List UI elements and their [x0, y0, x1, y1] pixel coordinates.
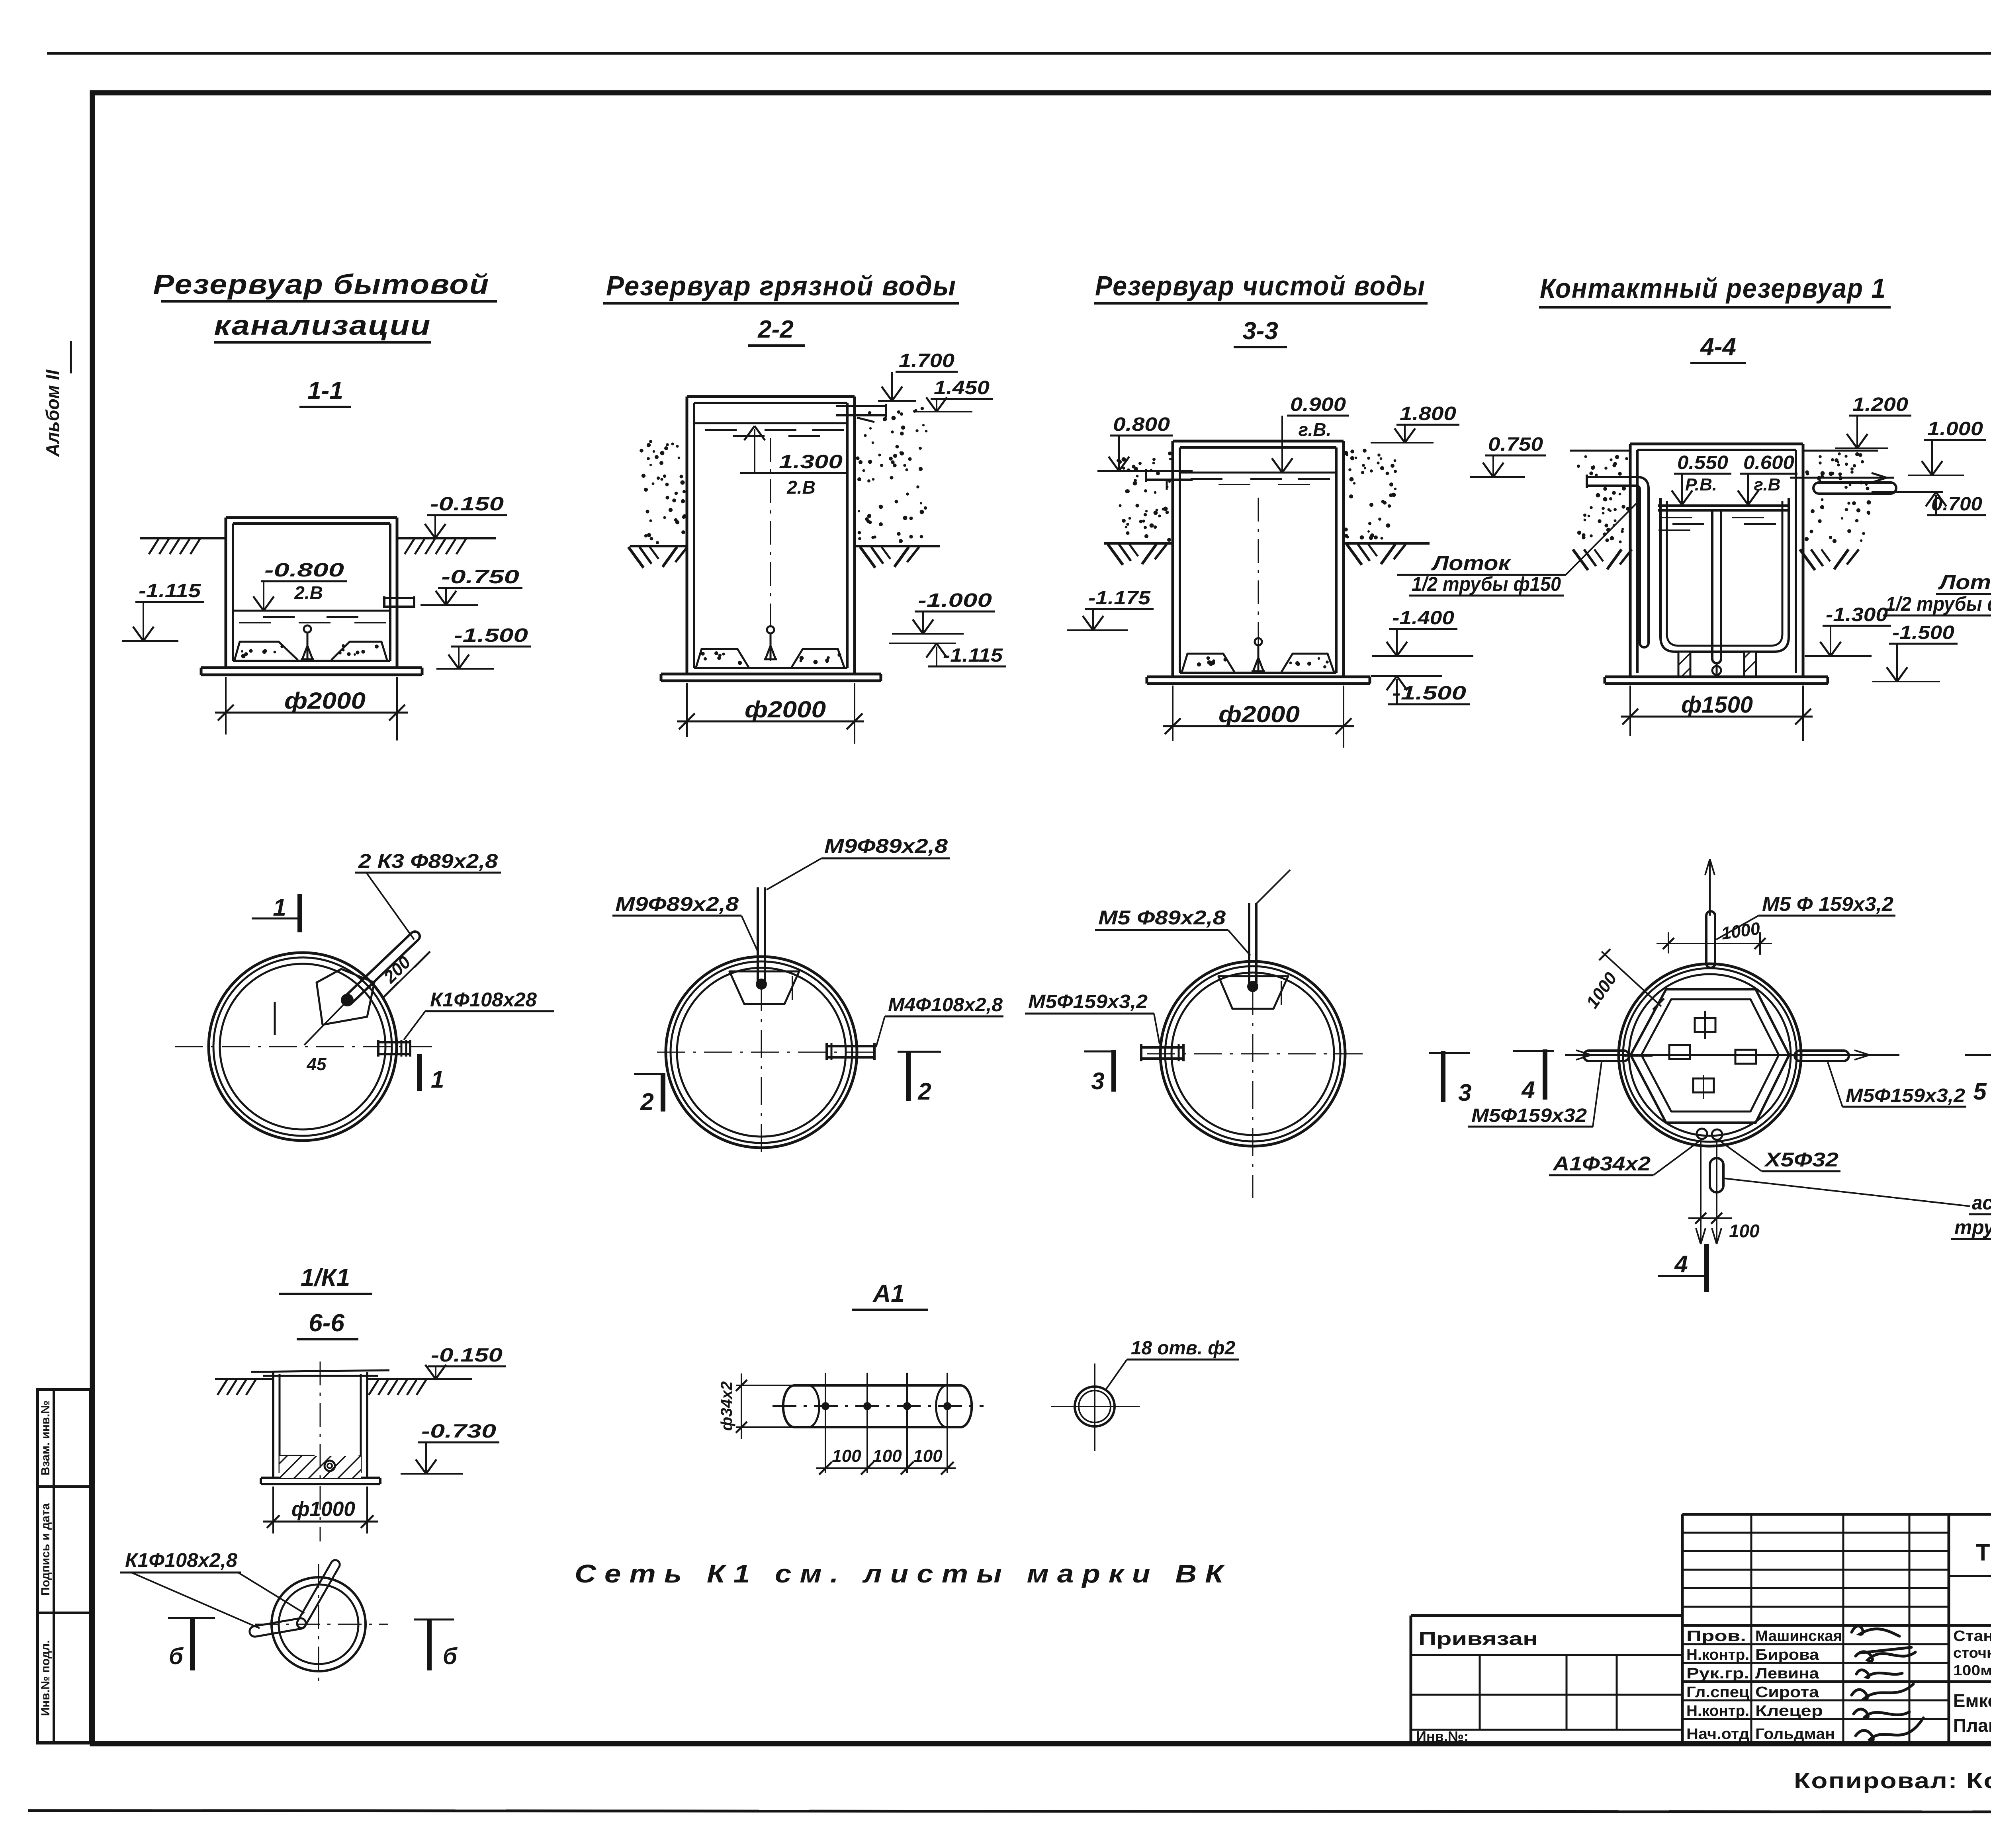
- svg-text:Привязан: Привязан: [1418, 1628, 1538, 1649]
- plan view tank 3 circle: [1160, 961, 1345, 1146]
- dimension ф34х2 (А1): [736, 1385, 792, 1386]
- tank 1-1 base slab: [201, 666, 422, 669]
- centerline tank 2-2: [770, 438, 771, 661]
- svg-text:ТП 902-3-83.88: ТП 902-3-83.88: [1976, 1539, 1991, 1566]
- svg-text:б: б: [169, 1643, 184, 1669]
- dimension ф1500 tank 4-4: [1629, 686, 1631, 736]
- svg-text:сточных вод производительность: сточных вод производительностью: [1953, 1645, 1991, 1661]
- water line tank 1-1: [233, 610, 390, 612]
- anchor symbol in tank 1-1: [304, 625, 311, 633]
- section marker 1 (top): [252, 918, 302, 920]
- inlet pipe left wall 3-3: [1146, 470, 1193, 472]
- svg-text:1/К1: 1/К1: [301, 1264, 350, 1291]
- dimension ф2000 tank 3-3: [1172, 686, 1173, 741]
- svg-text:г.В.: г.В.: [1299, 419, 1332, 440]
- svg-text:4: 4: [1674, 1251, 1688, 1278]
- excavation bottom left 3-3: [1104, 542, 1173, 545]
- overflow pipe top right 2-2: [836, 405, 886, 407]
- dimension ф2000 tank 2-2: [686, 683, 688, 737]
- plan 2 outlet pipe stub right: [827, 1045, 874, 1047]
- soil backfill left of tank 2-2 (stipple): [645, 510, 649, 513]
- section marker 4 (left of plan 4): [1513, 1050, 1554, 1052]
- svg-text:0.600: 0.600: [1743, 452, 1794, 473]
- svg-text:0.800: 0.800: [1113, 414, 1170, 435]
- svg-text:0.750: 0.750: [1488, 434, 1543, 455]
- section marker 2 (left): [634, 1073, 665, 1075]
- plan 4 hexagon frame: [1631, 989, 1789, 1123]
- svg-text:0.550: 0.550: [1677, 452, 1728, 473]
- title block signature rows: [1682, 1643, 1949, 1645]
- ground line right 6-6: [367, 1378, 460, 1380]
- svg-text:45: 45: [307, 1055, 327, 1074]
- shaft 6-6 walls: [272, 1372, 274, 1478]
- svg-text:1.000: 1.000: [1927, 418, 1983, 440]
- plan 1 inlet pipe (diagonal): [343, 932, 420, 1005]
- svg-text:3: 3: [1091, 1068, 1104, 1094]
- detail А1 holes: [821, 1402, 829, 1410]
- section marker 3 (left): [1084, 1051, 1116, 1053]
- signature squiggles: [1852, 1626, 1899, 1636]
- concrete fill left 2-2: [696, 649, 749, 667]
- svg-text:Инв.№ подл.: Инв.№ подл.: [39, 1640, 52, 1716]
- ground line right of tank 1-1: [397, 537, 496, 539]
- svg-text:Сирота: Сирота: [1755, 1684, 1819, 1701]
- drain fitting bottom 4-4: [1712, 666, 1721, 675]
- plan 1 horizontal centerline: [175, 1046, 432, 1047]
- svg-text:-1.500: -1.500: [1892, 622, 1954, 643]
- dimension ф1000 (6-6): [272, 1487, 274, 1533]
- svg-text:2-2: 2-2: [757, 316, 794, 343]
- plan detail К1 centerlines: [255, 1624, 388, 1625]
- svg-text:2.В: 2.В: [294, 582, 323, 603]
- plan 1 dim 200 along pipe: [383, 952, 429, 998]
- svg-text:Н.контр.: Н.контр.: [1686, 1703, 1749, 1719]
- tank 4-4 walls: [1629, 444, 1632, 677]
- svg-text:-1.115: -1.115: [139, 580, 201, 602]
- svg-text:Емкостные сооружения: Емкостные сооружения: [1953, 1690, 1991, 1711]
- svg-text:100: 100: [913, 1446, 943, 1466]
- water marks inside 4-4: [1660, 517, 1692, 518]
- plan 3 riser pipe to top: [1248, 903, 1250, 983]
- plan 4 mixer paddles: [1695, 1018, 1715, 1032]
- plan 2 centerlines: [657, 1052, 878, 1053]
- svg-text:ф2000: ф2000: [745, 697, 826, 723]
- shaft 6-6 top rim: [251, 1370, 389, 1372]
- plan 4 riser pipe top: [1705, 916, 1707, 963]
- section marker 2 (right): [898, 1051, 941, 1053]
- plan 3 inlet pipe stub left: [1141, 1046, 1183, 1049]
- sheet outer trim border bottom: [28, 1811, 1991, 1812]
- centerline 6-6: [320, 1362, 321, 1541]
- svg-text:Взам. инв.№: Взам. инв.№: [39, 1401, 52, 1476]
- dimension 100 (plan 4 bottom): [1695, 1213, 1706, 1224]
- dimension 1000 diagonal (plan 4): [1602, 951, 1661, 1006]
- plan 1 corner mark 45: [274, 1002, 276, 1035]
- svg-text:100: 100: [872, 1446, 902, 1466]
- Привязан table lines: [1411, 1654, 1682, 1656]
- support blocks 4-4: [1678, 652, 1690, 676]
- plan 3 leader from pipe top: [1256, 870, 1290, 904]
- soil backfill left of tank 4-4 (stipple): [1570, 450, 1630, 452]
- plan view tank 1 circle: [209, 953, 397, 1141]
- excavation bottom left 4-4: [1573, 549, 1588, 570]
- svg-text:Альбом II: Альбом II: [42, 369, 63, 457]
- plan 2 chute trapezoid: [730, 971, 799, 1004]
- svg-text:Лоток: Лоток: [1431, 552, 1512, 575]
- svg-text:100м³/сут. с глубокой очистки: 100м³/сут. с глубокой очистки: [1953, 1662, 1991, 1678]
- dimension 100 100 100 (А1): [816, 1467, 956, 1469]
- svg-text:1/2 трубы ф150: 1/2 трубы ф150: [1412, 573, 1561, 595]
- svg-text:К1Ф108х28: К1Ф108х28: [430, 988, 537, 1011]
- outlet pipe right 4-4: [1790, 477, 1894, 479]
- svg-text:4: 4: [1521, 1076, 1535, 1103]
- plan detail К1 circle: [272, 1577, 366, 1671]
- center drop pipe 4-4: [1711, 510, 1713, 659]
- svg-text:100: 100: [832, 1446, 861, 1466]
- svg-text:Н.контр.: Н.контр.: [1686, 1647, 1749, 1663]
- svg-text:5: 5: [1973, 1078, 1987, 1105]
- plan 3 centerlines: [1147, 1053, 1366, 1055]
- svg-text:2: 2: [917, 1078, 931, 1105]
- svg-text:М5 Ф 159х3,2: М5 Ф 159х3,2: [1762, 893, 1893, 915]
- svg-text:-1.175: -1.175: [1088, 588, 1151, 609]
- centerline tank 3-3: [1258, 498, 1259, 673]
- section marker 1 (bottom): [417, 1054, 422, 1091]
- soil backfill right of tank 4-4 (stipple): [1803, 450, 1878, 452]
- plan 2 riser pipe to top: [757, 887, 759, 980]
- tank 1-1 walls: [225, 518, 227, 668]
- svg-text:Клецер: Клецер: [1755, 1703, 1823, 1719]
- leader line to asbestos casing note (from plan 4): [1724, 1178, 1970, 1206]
- svg-text:-1.300: -1.300: [1826, 604, 1888, 625]
- plan 4 inlet pipe left: [1584, 1051, 1629, 1061]
- svg-text:ф1000: ф1000: [291, 1498, 355, 1521]
- svg-text:Станция биологической очистки: Станция биологической очистки: [1953, 1628, 1991, 1645]
- tank 2-2 base slab: [661, 673, 881, 676]
- svg-text:1: 1: [431, 1066, 444, 1093]
- svg-text:канализации: канализации: [214, 310, 431, 341]
- svg-text:18 отв. ф2: 18 отв. ф2: [1131, 1338, 1235, 1359]
- svg-text:2.В: 2.В: [786, 477, 816, 498]
- svg-text:М4Ф108х2,8: М4Ф108х2,8: [888, 994, 1003, 1016]
- water line tank 3-3: [1180, 472, 1336, 474]
- svg-text:Сеть К1 см. листы марки ВК: Сеть К1 см. листы марки ВК: [575, 1559, 1232, 1588]
- svg-text:Пров.: Пров.: [1686, 1628, 1746, 1645]
- svg-text:Инв.№:: Инв.№:: [1416, 1728, 1469, 1744]
- excavation bottom right 2-2: [855, 545, 940, 547]
- svg-text:-1.000: -1.000: [918, 590, 992, 611]
- svg-text:2 К3 Ф89х2,8: 2 К3 Ф89х2,8: [358, 850, 498, 872]
- section marker б (left): [168, 1617, 215, 1619]
- svg-text:М5 Ф89х2,8: М5 Ф89х2,8: [1098, 906, 1226, 929]
- svg-text:1: 1: [273, 894, 286, 921]
- ground line left of tank 1-1: [140, 537, 226, 539]
- section marker б (right): [414, 1619, 454, 1621]
- svg-text:Р.В.: Р.В.: [1685, 475, 1717, 494]
- svg-text:Планы. Разрезы.: Планы. Разрезы.: [1953, 1715, 1991, 1736]
- tank 2-2 walls: [686, 397, 688, 674]
- svg-text:Контактный резервуар 1: Контактный резервуар 1: [1540, 273, 1886, 304]
- plan 4 casing capsule: [1710, 1158, 1723, 1192]
- section marker 3 (right): [1429, 1052, 1470, 1054]
- svg-text:К1Ф108х2,8: К1Ф108х2,8: [125, 1549, 237, 1571]
- tank 3-3 walls: [1172, 441, 1174, 677]
- svg-text:М5Ф159х32: М5Ф159х32: [1471, 1105, 1587, 1126]
- anchor symbol tank 2-2: [767, 626, 774, 633]
- svg-text:Копировал: Коршунова: Копировал: Коршунова: [1794, 1768, 1991, 1793]
- inner vessel 4-4: [1660, 498, 1789, 652]
- concrete fill left 3-3: [1182, 654, 1234, 672]
- plan 1 chute outline: [317, 969, 374, 1025]
- soil backfill left of tank 3-3 (stipple): [1117, 459, 1120, 462]
- sheet outer trim border top: [47, 52, 1991, 55]
- soil backfill right of tank 2-2 (stipple): [922, 424, 925, 426]
- svg-text:Резервуар грязной воды: Резервуар грязной воды: [606, 270, 956, 301]
- plan detail К1 diagonal pipe: [297, 1560, 340, 1628]
- svg-text:-0.730: -0.730: [421, 1421, 496, 1442]
- dimension 1000 horizontal (plan 4): [1668, 932, 1669, 953]
- svg-text:3: 3: [1458, 1079, 1471, 1106]
- svg-text:1.300: 1.300: [779, 451, 843, 473]
- svg-text:Левина: Левина: [1755, 1665, 1819, 1682]
- section marker 5 (right of plan 4): [1965, 1054, 1991, 1056]
- svg-text:3-3: 3-3: [1242, 317, 1278, 345]
- plan view tank 2 circle: [666, 957, 857, 1148]
- svg-text:Нач.отд: Нач.отд: [1686, 1726, 1749, 1743]
- svg-text:-0.150: -0.150: [431, 1345, 503, 1366]
- detail А1 hole section centerlines: [1051, 1406, 1140, 1407]
- shaft 6-6 base slab: [261, 1477, 380, 1479]
- svg-text:г.В: г.В: [1754, 475, 1781, 494]
- tank 3-3 floor: [1180, 672, 1336, 674]
- water line tank 2-2: [694, 422, 847, 424]
- plan 4 centerlines with flow arrows: [1565, 1054, 1899, 1056]
- svg-text:Машинская: Машинская: [1755, 1628, 1842, 1645]
- svg-text:2: 2: [640, 1088, 653, 1115]
- svg-text:М5Ф159х3,2: М5Ф159х3,2: [1846, 1085, 1965, 1106]
- svg-text:Гольдман: Гольдман: [1755, 1726, 1835, 1743]
- svg-text:Резервуар бытовой: Резервуар бытовой: [153, 269, 490, 300]
- plan 4 outlet pipe right: [1795, 1051, 1849, 1061]
- svg-text:1-1: 1-1: [307, 377, 343, 404]
- plan 4 drain circles: [1697, 1129, 1707, 1139]
- left margin stamp table: [37, 1389, 90, 1743]
- svg-text:100: 100: [1729, 1221, 1760, 1241]
- section marker 4 (bottom): [1658, 1275, 1709, 1277]
- plan 1 outlet pipe stub right: [378, 1041, 410, 1043]
- svg-text:-1.400: -1.400: [1392, 608, 1454, 629]
- detail А1 centerline: [773, 1405, 984, 1407]
- plan detail К1 stub capsule: [250, 1618, 306, 1637]
- svg-text:ф34х2: ф34х2: [718, 1381, 735, 1431]
- svg-text:-0.150: -0.150: [430, 494, 504, 515]
- inlet pipe stub right wall 1-1: [384, 597, 414, 599]
- anchor symbol tank 3-3: [1255, 638, 1262, 645]
- tank 3-3 base slab: [1147, 676, 1370, 678]
- svg-text:Х5Ф32: Х5Ф32: [1763, 1149, 1838, 1171]
- svg-text:Гл.спец: Гл.спец: [1686, 1684, 1750, 1701]
- detail А1 hole axes: [825, 1373, 826, 1473]
- plan view tank 4 circle: [1619, 964, 1801, 1146]
- svg-text:Рук.гр.: Рук.гр.: [1686, 1665, 1749, 1682]
- plan 3 chute trapezoid: [1218, 976, 1288, 1009]
- concrete fill left 1-1: [235, 642, 298, 660]
- svg-text:1.800: 1.800: [1400, 403, 1456, 424]
- excavation bottom right 3-3: [1344, 542, 1430, 545]
- svg-text:6-6: 6-6: [309, 1309, 344, 1337]
- dimension ф2000 tank 1-1: [225, 677, 227, 735]
- inlet elbow pipe 4-4: [1587, 477, 1649, 643]
- title block: outer and inner lines: [1949, 1513, 1991, 1516]
- excavation bottom left 2-2: [630, 545, 687, 547]
- detail А1 hole section circle: [1075, 1387, 1115, 1426]
- svg-text:Резервуар чистой воды: Резервуар чистой воды: [1095, 270, 1426, 301]
- svg-text:М9Ф89х2,8: М9Ф89х2,8: [615, 893, 739, 915]
- svg-text:1/2 трубы ф150: 1/2 трубы ф150: [1885, 593, 1991, 615]
- svg-text:А1Ф34х2: А1Ф34х2: [1552, 1153, 1651, 1175]
- svg-text:М5Ф159х3,2: М5Ф159х3,2: [1028, 991, 1148, 1012]
- plan 4 paddle stems: [1704, 1011, 1706, 1039]
- svg-text:Лоток: Лоток: [1938, 571, 1991, 594]
- svg-text:б: б: [443, 1643, 458, 1669]
- svg-text:ф1500: ф1500: [1681, 692, 1753, 718]
- cover plate 4-4: [1658, 504, 1790, 507]
- svg-text:-0.800: -0.800: [264, 560, 344, 581]
- svg-text:0.900: 0.900: [1290, 394, 1346, 415]
- concrete fill right 1-1: [331, 642, 387, 660]
- svg-text:1.450: 1.450: [934, 377, 990, 399]
- svg-text:-0.750: -0.750: [441, 567, 519, 588]
- tank 1-1 floor: [233, 660, 390, 662]
- svg-text:асбестоцементная: асбестоцементная: [1972, 1192, 1991, 1214]
- svg-text:1.200: 1.200: [1852, 394, 1908, 415]
- svg-text:Бирова: Бирова: [1755, 1647, 1819, 1663]
- tank 4-4 base slab: [1605, 676, 1828, 678]
- tank 2-2 floor: [694, 667, 847, 669]
- ground line left 6-6: [215, 1378, 273, 1380]
- concrete fill right 3-3: [1281, 654, 1334, 672]
- svg-text:ф2000: ф2000: [284, 688, 366, 714]
- svg-text:труба-футляр ф100: труба-футляр ф100: [1954, 1216, 1991, 1239]
- svg-text:Подпись и дата: Подпись и дата: [39, 1503, 52, 1596]
- svg-text:М9Ф89х2,8: М9Ф89х2,8: [824, 835, 948, 857]
- detail А1 perforated tube: [794, 1384, 960, 1387]
- title block signature columns: [1750, 1514, 1752, 1744]
- svg-text:-1.115: -1.115: [943, 645, 1003, 666]
- concrete plug with pipe 6-6: [280, 1455, 315, 1457]
- svg-text:1.700: 1.700: [899, 350, 954, 371]
- svg-text:А1: А1: [872, 1280, 904, 1307]
- soil backfill right of tank 3-3 (stipple): [1348, 468, 1351, 471]
- plan 4 drain lines down: [1700, 1139, 1702, 1244]
- svg-text:ф2000: ф2000: [1218, 701, 1300, 727]
- concrete fill right 2-2: [792, 649, 844, 667]
- svg-text:-1.500: -1.500: [454, 625, 528, 646]
- excavation bottom right 4-4: [1800, 549, 1815, 570]
- svg-text:4-4: 4-4: [1700, 333, 1736, 361]
- title block: revision table grid: [1682, 1513, 1949, 1516]
